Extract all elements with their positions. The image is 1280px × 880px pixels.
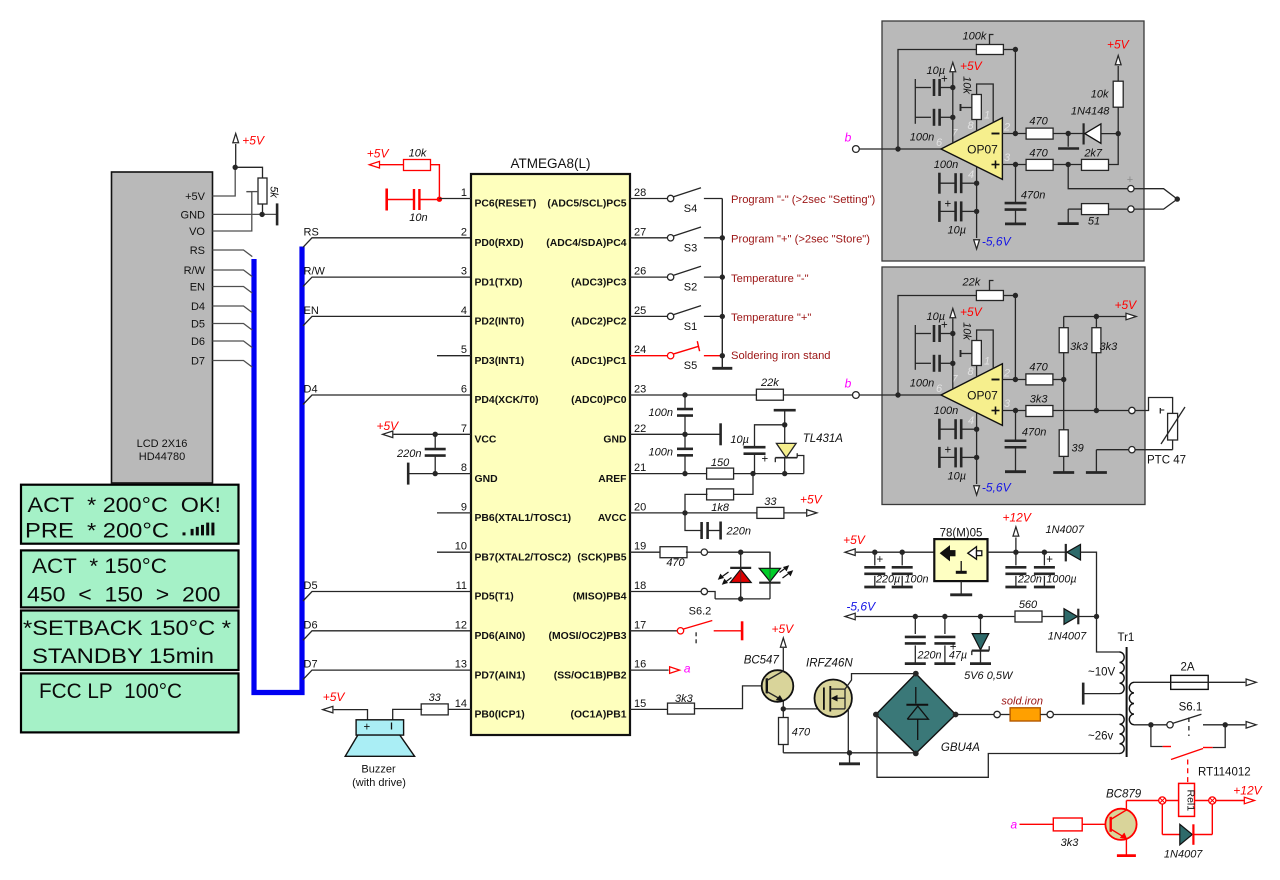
relay coil Rel1: [1179, 783, 1195, 816]
svg-text:RS: RS: [304, 226, 319, 238]
capacitor C 10u op-amp supply (bottom): [938, 447, 941, 468]
amplifier block 1 (thermocouple) gray box: [882, 21, 1144, 261]
transistor Q1 BC547: [762, 670, 794, 702]
svg-text:+: +: [762, 454, 769, 466]
resistor R 150 on AREF: [707, 468, 734, 479]
svg-text:-5,6V: -5,6V: [846, 600, 876, 614]
connector circle sold.iron left: [994, 711, 1000, 717]
wire GND pin 8 to ground: [408, 473, 471, 475]
ground T-bar at pin 8: [407, 463, 410, 485]
node +5V junction at LCD: [233, 165, 238, 170]
svg-text:AREF: AREF: [598, 474, 626, 485]
relay contact Rel1 (parallel to S6.1): [1151, 725, 1163, 747]
svg-text:24: 24: [634, 344, 646, 356]
svg-text:10µ: 10µ: [730, 434, 749, 446]
svg-text:5V6 0,5W: 5V6 0,5W: [964, 670, 1014, 682]
wire LCD EN stub to bus: [213, 287, 253, 294]
wire PTC bottom to ground: [1096, 449, 1128, 451]
switch S3: [630, 237, 667, 239]
svg-text:10k: 10k: [961, 322, 973, 340]
display text box 2: [21, 550, 239, 607]
svg-text:4: 4: [968, 169, 974, 181]
svg-text:3: 3: [1004, 398, 1011, 410]
wire LCD GND pin to ground bar: [213, 213, 278, 215]
wire pin 23 to node b: [630, 394, 853, 396]
svg-text:10k: 10k: [961, 76, 973, 94]
wire LCD D7 stub to bus: [213, 361, 253, 368]
svg-text:3: 3: [1004, 152, 1011, 164]
svg-text:D4: D4: [304, 384, 318, 396]
svg-text:(ADC3)PC3: (ADC3)PC3: [571, 277, 627, 288]
svg-text:5k: 5k: [268, 186, 280, 198]
svg-text:a: a: [684, 662, 691, 676]
wire node to pin 1: [439, 198, 471, 200]
svg-text:+5V: +5V: [1115, 298, 1138, 312]
resistor R 10k offset trim: [972, 95, 982, 120]
svg-text:+5V: +5V: [323, 690, 346, 704]
display text box 1: [21, 485, 239, 544]
resistor R 3k3 divider top: [1059, 328, 1068, 353]
ground at 51: [1067, 209, 1069, 224]
svg-text:Buzzer: Buzzer: [361, 764, 396, 776]
wire gate node to MOSFET gate: [783, 708, 822, 710]
svg-text:23: 23: [634, 384, 646, 396]
svg-text:100n: 100n: [910, 132, 934, 144]
svg-text:(MISO)PB4: (MISO)PB4: [573, 592, 627, 603]
resistor R 3k3 base: [1053, 818, 1082, 831]
svg-text:8: 8: [968, 366, 975, 378]
svg-text:100n: 100n: [934, 405, 958, 417]
svg-text:PRE * 200°C: PRE * 200°C: [25, 519, 169, 543]
LED green light arrows: [783, 572, 792, 579]
node reset junction: [437, 197, 442, 202]
svg-text:Program "-" (>2sec "Setting"): Program "-" (>2sec "Setting"): [731, 194, 876, 206]
svg-text:470: 470: [1029, 116, 1048, 128]
power -5,6V arrow op-amp supply: [976, 167, 978, 238]
capacitor C 10u AREF (polarized): [754, 453, 756, 474]
display text box 3: [21, 611, 239, 671]
power +5V arrow (block2 divider): [1126, 313, 1136, 320]
ground below switch bank: [712, 367, 732, 370]
svg-text:16: 16: [634, 659, 646, 671]
svg-text:PD6(AIN0): PD6(AIN0): [475, 631, 526, 642]
wire pin 22 GND with T-bar: [630, 433, 721, 435]
resistor R 22k: [756, 389, 783, 400]
wire connector minus to junction: [1134, 199, 1177, 209]
resistor R 10k offset trim: [972, 341, 982, 366]
wire bus D6 to ATMEGA: [303, 631, 471, 641]
capacitor C 470n at non-inverting input: [1015, 165, 1017, 204]
svg-text:3k3: 3k3: [1070, 341, 1089, 353]
switch S4: [630, 198, 667, 200]
svg-text:560: 560: [1019, 599, 1038, 611]
wire LCD RS stub to bus: [213, 250, 253, 257]
ground at MOSFET source: [849, 753, 851, 764]
svg-text:7: 7: [461, 423, 467, 435]
svg-text:20: 20: [634, 501, 646, 513]
svg-text:470n: 470n: [1022, 427, 1046, 439]
svg-text:150: 150: [711, 457, 730, 469]
wire non-inverting input line (block2): [1002, 410, 1025, 412]
svg-text:Program "+" (>2sec "Store"): Program "+" (>2sec "Store"): [731, 234, 870, 246]
svg-text:PD5(T1): PD5(T1): [475, 592, 514, 603]
microcontroller U1 ATMEGA8(L): [471, 174, 630, 735]
winding ~26v secondary: [1120, 715, 1125, 754]
svg-text:TL431A: TL431A: [803, 433, 844, 445]
svg-text:EN: EN: [304, 305, 319, 317]
svg-text:GND: GND: [475, 474, 499, 485]
svg-text:39: 39: [1072, 443, 1084, 455]
svg-text:13: 13: [455, 659, 467, 671]
svg-text:STANDBY 15min: STANDBY 15min: [32, 644, 214, 668]
svg-text:VCC: VCC: [475, 435, 497, 446]
svg-text:(ADC1)PC1: (ADC1)PC1: [571, 356, 627, 367]
ground below 470n: [1015, 209, 1017, 224]
LCD module LCD 2X16 HD44780: [112, 172, 213, 483]
regulator U 78(M)05: [934, 539, 987, 581]
wire fuse to mains: [1208, 681, 1245, 683]
wire -5,6V rail: [856, 616, 1014, 618]
svg-text:Temperature "-": Temperature "-": [731, 273, 809, 285]
svg-text:+: +: [941, 320, 948, 332]
ground below 39: [1063, 471, 1065, 473]
svg-text:5: 5: [461, 344, 467, 356]
svg-text:33: 33: [764, 496, 777, 508]
zener diode 5V6 0,5W: [980, 617, 982, 634]
wire bus D4 to ATMEGA: [303, 395, 471, 405]
svg-text:PD2(INT0): PD2(INT0): [475, 317, 525, 328]
svg-text:GND: GND: [603, 435, 627, 446]
svg-text:D7: D7: [304, 659, 318, 671]
svg-text:17: 17: [634, 619, 646, 631]
svg-text:14: 14: [455, 698, 467, 710]
svg-text:18: 18: [634, 580, 646, 592]
capacitor C 100n op-amp supply (top): [915, 362, 931, 364]
capacitor C 1000u (polarized): [1043, 552, 1045, 565]
svg-text:Temperature "+": Temperature "+": [731, 312, 811, 324]
svg-text:6: 6: [936, 383, 943, 395]
wire LCD D5 stub to bus: [213, 324, 253, 331]
svg-text:2k7: 2k7: [1083, 148, 1103, 160]
svg-text:+: +: [945, 199, 952, 211]
svg-text:D6: D6: [304, 619, 318, 631]
svg-text:(MOSI/OC2)PB3: (MOSI/OC2)PB3: [549, 631, 627, 642]
capacitor C 100n op-amp supply (top): [915, 116, 931, 118]
svg-text:47µ: 47µ: [949, 650, 967, 662]
svg-text:PB0(ICP1): PB0(ICP1): [475, 710, 525, 721]
svg-text:470n: 470n: [1021, 190, 1045, 202]
shunt regulator TL431A: [774, 409, 796, 412]
svg-text:(ADC4/SDA)PC4: (ADC4/SDA)PC4: [546, 238, 626, 249]
switch S5 (red): [630, 355, 667, 357]
wire pin 20 AVCC: [630, 512, 757, 514]
svg-text:100n: 100n: [905, 574, 929, 586]
power +5V arrow at 10k: [1115, 56, 1121, 65]
svg-text:2A: 2A: [1180, 662, 1194, 674]
svg-text:+: +: [877, 554, 884, 566]
svg-text:470: 470: [1029, 148, 1048, 160]
capacitor C 10u op-amp supply (bottom): [938, 201, 941, 222]
wire connector plus to junction: [1134, 189, 1177, 199]
svg-text:11: 11: [456, 580, 467, 592]
pin 10 stub wire: [437, 551, 471, 553]
svg-text:6: 6: [936, 137, 943, 149]
connector circle PTC top: [1129, 407, 1135, 413]
wire inverting input line (block2): [1002, 379, 1025, 381]
svg-text:3k3: 3k3: [1100, 341, 1119, 353]
wire MOSFET drain to bridge: [845, 674, 916, 690]
wire +5V to 10k: [380, 164, 403, 166]
wire bus EN to ATMEGA: [303, 316, 471, 326]
power +5V arrow at LCD: [235, 144, 237, 167]
svg-text:470: 470: [1029, 362, 1048, 374]
wire 26v winding return to bridge AC left: [877, 715, 1120, 778]
wire b to op-amp output: [859, 394, 941, 396]
ground at PTC return: [1095, 471, 1097, 473]
bus blue data/control bus (U-shape): [254, 247, 302, 693]
svg-text:(SS/OC1B)PB2: (SS/OC1B)PB2: [554, 670, 627, 681]
capacitor C 470n (block2): [1015, 411, 1017, 441]
transistor Q3 BC879: [1105, 809, 1136, 840]
svg-text:BC547: BC547: [744, 655, 780, 667]
winding primary: [1129, 682, 1134, 724]
svg-text:(ADC2)PC2: (ADC2)PC2: [571, 317, 627, 328]
svg-text:1N4007: 1N4007: [1046, 524, 1085, 536]
resistor R 1k8 AREF-AVCC: [733, 474, 753, 495]
switch S1: [630, 315, 667, 317]
svg-text:EN: EN: [190, 282, 205, 294]
resistor R 22k feedback: [898, 296, 977, 396]
svg-text:220n: 220n: [917, 650, 942, 662]
capacitor C 220n at VCC: [434, 434, 436, 448]
svg-text:21: 21: [634, 462, 646, 474]
resistor R 3k3 on PB1: [630, 708, 668, 710]
wire bus D5 to ATMEGA: [303, 592, 471, 602]
svg-text:D5: D5: [191, 319, 205, 331]
capacitor C 10n reset: [385, 189, 388, 211]
capacitor C 100n pin23-pin22: [684, 395, 686, 409]
svg-text:+: +: [1046, 554, 1053, 566]
svg-text:100n: 100n: [934, 159, 958, 171]
relay actuator dashed link: [1187, 760, 1189, 784]
svg-text:S6.2: S6.2: [689, 606, 712, 618]
svg-text:+12V: +12V: [1003, 511, 1032, 525]
resistor R 33 AVCC: [757, 507, 784, 518]
svg-text:(ADC0)PC0: (ADC0)PC0: [571, 395, 627, 406]
svg-text:GBU4A: GBU4A: [941, 742, 980, 754]
resistor R 560: [1015, 611, 1042, 622]
capacitor C 100n op-amp supply (bottom): [938, 173, 941, 194]
svg-text:1N4007: 1N4007: [1164, 849, 1203, 861]
wire +12V relay line: [1126, 800, 1244, 802]
svg-text:-5,6V: -5,6V: [982, 235, 1012, 249]
wire switch common vertical: [721, 199, 723, 369]
ground T-bar at 5k: [276, 203, 279, 225]
node b connector: [853, 146, 860, 153]
svg-text:ATMEGA8(L): ATMEGA8(L): [510, 156, 590, 171]
svg-text:b: b: [845, 131, 852, 145]
resistor R 2k7: [1082, 159, 1109, 170]
svg-text:4: 4: [461, 305, 467, 317]
wire 3k3 to BC879 base: [1082, 823, 1111, 825]
LED red light arrows: [720, 572, 729, 579]
svg-text:10µ: 10µ: [948, 225, 967, 237]
svg-text:(OC1A)PB1: (OC1A)PB1: [570, 710, 626, 721]
svg-text:+5V: +5V: [367, 147, 390, 161]
svg-text:PB6(XTAL1/TOSC1): PB6(XTAL1/TOSC1): [475, 513, 572, 524]
svg-text:R/W: R/W: [304, 266, 326, 278]
svg-text:28: 28: [634, 187, 646, 199]
MOSFET Q2 IRFZ46N: [815, 680, 852, 717]
power +12V arrow relay: [1244, 797, 1254, 804]
winding ~10V secondary: [1120, 652, 1125, 694]
svg-text:22k: 22k: [760, 377, 779, 389]
svg-text:15: 15: [634, 698, 646, 710]
svg-text:100n: 100n: [910, 378, 934, 390]
LED green D2: [769, 552, 771, 599]
node thermocouple junction: [1175, 196, 1180, 201]
wire 10k to pin1 node: [431, 165, 440, 200]
svg-text:51: 51: [1088, 216, 1100, 228]
svg-text:100k: 100k: [963, 31, 987, 43]
svg-text:+5V: +5V: [843, 533, 866, 547]
wire +5V to 5k: [235, 167, 262, 178]
svg-text:OP07: OP07: [967, 143, 998, 157]
wire +12V rail: [988, 551, 1066, 553]
svg-text:3k3: 3k3: [1061, 837, 1080, 849]
svg-text:3: 3: [461, 266, 467, 278]
svg-text:1N4007: 1N4007: [1048, 631, 1087, 643]
svg-text:S4: S4: [684, 203, 697, 215]
LED red D1: [740, 552, 742, 599]
connector terminal left: [1159, 797, 1166, 804]
svg-text:b: b: [845, 377, 852, 391]
svg-text:PD1(TXD): PD1(TXD): [475, 277, 523, 288]
power +5V arrow op-amp supply: [952, 319, 954, 390]
ground below 470n (block2): [1015, 447, 1017, 472]
svg-text:10k: 10k: [409, 148, 427, 160]
svg-text:LCD 2X16: LCD 2X16: [137, 438, 188, 450]
svg-text:PTC 47: PTC 47: [1147, 455, 1186, 467]
svg-text:22k: 22k: [962, 277, 981, 289]
wire sold.iron to 26v winding: [1053, 714, 1119, 716]
svg-text:R/W: R/W: [184, 265, 206, 277]
svg-text:sold.iron: sold.iron: [1001, 696, 1043, 708]
svg-text:S5: S5: [684, 360, 697, 372]
resistor R 33 on PB0: [447, 708, 471, 710]
svg-text:a: a: [1011, 818, 1018, 832]
diode D 1N4007 (+12V rectifier): [1065, 544, 1067, 562]
connector circle sold.iron right: [1047, 711, 1053, 717]
svg-text:+5V: +5V: [185, 191, 206, 203]
wire ~10V return with chassis bar: [1084, 693, 1119, 695]
svg-text:(with drive): (with drive): [352, 777, 406, 789]
node b connector: [853, 392, 860, 399]
wire LCD +5V pin: [213, 167, 236, 196]
capacitor C 220n at AVCC: [685, 513, 701, 531]
wire bus RS to ATMEGA: [303, 238, 471, 248]
power -5,6V arrow op-amp supply: [976, 413, 978, 484]
svg-text:OP07: OP07: [967, 389, 998, 403]
wire bus R/W to ATMEGA: [303, 277, 471, 287]
svg-text:Rel1: Rel1: [1185, 789, 1197, 811]
svg-text:+: +: [945, 445, 952, 457]
svg-text:100n: 100n: [649, 447, 673, 459]
svg-text:+: +: [364, 722, 371, 734]
bridge rectifier GBU4A: [876, 674, 956, 754]
pin 5 stub wire: [437, 355, 471, 357]
svg-text:3k3: 3k3: [675, 693, 694, 705]
svg-text:2: 2: [1003, 368, 1010, 380]
svg-text:10µ: 10µ: [948, 471, 967, 483]
svg-text:10: 10: [455, 541, 467, 553]
diode D 1N4007 (-5,6V rectifier): [1043, 616, 1065, 618]
svg-text:100n: 100n: [649, 407, 673, 419]
svg-text:PD3(INT1): PD3(INT1): [475, 356, 525, 367]
svg-text:9: 9: [461, 501, 467, 513]
wire regulator ground: [960, 581, 962, 595]
power +12V arrow: [1015, 538, 1017, 553]
svg-text:1: 1: [461, 187, 467, 199]
resistor R 39 divider bottom: [1059, 430, 1068, 457]
svg-text:(ADC5/SCL)PC5: (ADC5/SCL)PC5: [547, 199, 626, 210]
svg-text:19: 19: [634, 541, 646, 553]
svg-text:PD4(XCK/T0): PD4(XCK/T0): [475, 395, 539, 406]
svg-text:PC6(RESET): PC6(RESET): [475, 199, 537, 210]
svg-text:D4: D4: [191, 301, 205, 313]
svg-text:1N4148: 1N4148: [1071, 106, 1110, 118]
wire LCD VO pin (wiper of 5k): [213, 192, 252, 231]
svg-text:+5V: +5V: [242, 134, 265, 148]
pin 9 stub wire: [437, 512, 471, 514]
capacitor C 100n op-amp supply (bottom): [938, 419, 941, 440]
capacitor C 220n negative rail: [914, 617, 916, 635]
op-amp U OP07: [941, 118, 1002, 180]
wire primary top to fuse: [1134, 681, 1171, 683]
svg-text:2: 2: [1003, 122, 1010, 134]
wire diode to winding: [1081, 552, 1120, 652]
svg-text:220µ: 220µ: [875, 574, 900, 586]
svg-text:GND: GND: [181, 209, 206, 221]
svg-text:VO: VO: [189, 226, 205, 238]
wire pin19 to LEDs: [708, 551, 771, 553]
svg-text:2: 2: [461, 226, 467, 238]
resistor R 470 gate pull-down: [782, 709, 784, 718]
svg-text:+5V: +5V: [960, 305, 983, 319]
svg-text:Soldering iron stand: Soldering iron stand: [731, 350, 831, 362]
svg-text:33: 33: [429, 692, 442, 704]
resistor R 470 (inverting): [1026, 128, 1053, 139]
svg-text:D5: D5: [304, 580, 318, 592]
resistor R 3k3 divider 2: [1092, 328, 1101, 353]
connector circle minus: [1128, 206, 1134, 212]
svg-text:470: 470: [666, 557, 685, 569]
resistor R 10k reset pull-up: [404, 160, 431, 171]
svg-text:4: 4: [968, 415, 974, 427]
svg-text:ACT * 150°C: ACT * 150°C: [32, 554, 167, 578]
svg-text:(SCK)PB5: (SCK)PB5: [577, 552, 626, 563]
wire +5V rail: [856, 551, 934, 553]
svg-text:IRFZ46N: IRFZ46N: [806, 658, 853, 670]
wire b to op-amp output: [859, 148, 941, 150]
power +5V arrow op-amp supply: [952, 73, 954, 144]
svg-text:+12V: +12V: [1233, 784, 1262, 798]
connector circle PTC bottom: [1129, 447, 1135, 453]
capacitor C 10u op-amp supply (top): [914, 325, 916, 370]
resistor R 100k feedback: [898, 50, 977, 150]
fuse F 2A: [1171, 675, 1209, 689]
svg-text:D6: D6: [191, 336, 205, 348]
